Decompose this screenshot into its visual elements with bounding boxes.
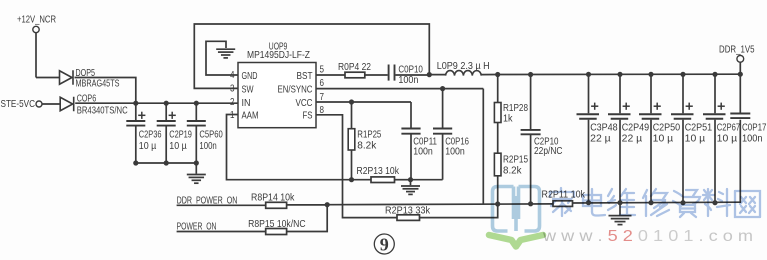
watermark char xiu: [643, 189, 669, 216]
svg-text:C2P49: C2P49: [622, 123, 650, 134]
node R1P28 tap: [495, 72, 500, 77]
node C2P49 top: [617, 72, 622, 77]
op-amp U1 UOP9 MP1495DJ-LF-Z box: [238, 42, 316, 128]
watermark char zi: [673, 190, 700, 217]
wire STE-5VC to COP6: [42, 103, 60, 105]
node C0P16 top: [440, 86, 445, 91]
svg-text:10 µ: 10 µ: [685, 134, 706, 145]
svg-text:22p/NC: 22p/NC: [534, 146, 563, 157]
node C2P36 top: [133, 101, 138, 106]
svg-text:R2P13 33k: R2P13 33k: [385, 205, 431, 216]
resistor R2P15 8.2k: [494, 153, 528, 204]
svg-text:C3P48: C3P48: [590, 123, 618, 134]
wire SW top loop: [194, 24, 429, 88]
ground IC GND: [216, 49, 235, 58]
svg-text:BR4340TS/NC: BR4340TS/NC: [77, 106, 128, 117]
svg-text:EN/SYNC: EN/SYNC: [278, 84, 313, 95]
svg-text:AAM: AAM: [242, 111, 259, 122]
svg-text:MBRAG45TS: MBRAG45TS: [76, 79, 120, 90]
wire fb node to C0P16 bottom: [411, 179, 443, 181]
node C3P48 top: [586, 72, 591, 77]
svg-text:5: 5: [320, 65, 325, 76]
net label POWER_ON: [177, 221, 266, 232]
ground fb: [401, 180, 420, 195]
terminal DDR_1V5: [719, 45, 755, 74]
svg-text:100n: 100n: [742, 134, 763, 145]
svg-text:w w w . 5 2 0 1 0 1 . c o m: w w w . 5 2 0 1 0 1 . c o m: [542, 228, 753, 245]
node C2P51 bottom: [680, 200, 685, 205]
svg-text:100n: 100n: [199, 141, 217, 152]
wire pin7 VCC: [316, 102, 411, 128]
wire input caps ground bus: [136, 162, 197, 164]
wire pin6 EN/SYNC: [316, 89, 483, 204]
diode DOP5 MBRAG45TS: [60, 68, 120, 90]
watermark char liao: [703, 189, 730, 216]
node R1P25 top: [349, 99, 354, 104]
svg-text:L0P9 2.3 µ H: L0P9 2.3 µ H: [437, 61, 490, 72]
resistor R1P28 1k: [494, 75, 528, 154]
wire bottom rail left: [327, 203, 553, 206]
capacitor C0P16 100n: [433, 89, 469, 180]
svg-text:VCC: VCC: [296, 98, 313, 109]
wire R8P14 to junction: [287, 204, 328, 206]
wire output rail DDR_1V5: [498, 73, 741, 75]
svg-text:100n: 100n: [445, 147, 465, 158]
capacitor C2P10 22p/NC: [521, 75, 563, 204]
svg-text:8.2k: 8.2k: [357, 140, 377, 151]
node C2P49 bottom: [617, 200, 622, 205]
svg-text:100n: 100n: [413, 147, 433, 158]
inductor L0P9 2.3uH: [429, 61, 497, 76]
svg-text:9: 9: [380, 234, 389, 254]
svg-text:GND: GND: [242, 71, 258, 82]
svg-text:R1P25: R1P25: [357, 129, 381, 140]
terminal +12V_NCR: [17, 15, 56, 78]
pin 2 IN label: [230, 97, 251, 109]
svg-text:R2P15: R2P15: [503, 155, 528, 166]
node C2P50 top: [648, 72, 653, 77]
svg-text:DDR_1V5: DDR_1V5: [719, 45, 755, 56]
node C2P10 tap: [528, 72, 533, 77]
node C2P50 bottom: [648, 200, 653, 205]
svg-text:FS: FS: [303, 111, 313, 122]
watermark char jia: [550, 188, 574, 216]
svg-text:R8P14 10k: R8P14 10k: [251, 193, 295, 204]
wire +12V to DOP5: [36, 77, 60, 79]
svg-text:STE-5VC: STE-5VC: [1, 99, 36, 110]
watermark char wei: [608, 189, 635, 215]
node C2P51 top: [680, 72, 685, 77]
capacitor C3P48 22 u: [577, 74, 618, 203]
svg-text:C2P67: C2P67: [717, 123, 741, 134]
svg-text:10 µ: 10 µ: [653, 134, 674, 145]
pin 3 SW label: [230, 84, 254, 96]
wire pin8 FS: [316, 115, 397, 218]
svg-text:C2P36: C2P36: [139, 130, 162, 141]
capacitor C2P50 10 u: [639, 74, 680, 203]
wire R2P13 to ground node: [395, 179, 411, 181]
capacitor C2P19 10u: [157, 103, 192, 163]
svg-text:IN: IN: [242, 98, 251, 109]
svg-text:8.2k: 8.2k: [503, 165, 522, 176]
watermark url www.520101.com: [542, 228, 753, 245]
resistor R2P13 10k: [357, 166, 400, 183]
pin 4 GND label: [230, 70, 258, 82]
svg-text:10 µ: 10 µ: [717, 134, 738, 145]
resistor R2P11 10k: [542, 190, 586, 207]
pin 6 EN/SYNC label: [278, 78, 325, 95]
capacitor C0P17 100n: [730, 74, 766, 203]
ground output rail: [609, 203, 632, 225]
pin 7 VCC label: [296, 92, 325, 109]
svg-text:C0P10: C0P10: [398, 64, 423, 75]
svg-text:2: 2: [230, 97, 235, 108]
node C5P60 top: [194, 101, 199, 106]
wire C0P10 to SW node: [395, 74, 429, 76]
node R2P15 bottom: [495, 201, 500, 206]
svg-text:10 µ: 10 µ: [169, 141, 187, 152]
node C2P67 top: [712, 72, 717, 77]
terminal STE-5VC: [1, 99, 43, 110]
capacitor C2P36 10u: [126, 103, 161, 163]
pin 5 BST label: [297, 65, 325, 82]
svg-text:1k: 1k: [503, 113, 513, 124]
resistor R2P13 33k: [385, 205, 431, 220]
svg-text:C2P50: C2P50: [653, 123, 681, 134]
svg-text:C2P51: C2P51: [685, 123, 713, 134]
svg-text:6: 6: [320, 78, 325, 89]
node C2P10 bottom: [528, 201, 533, 206]
svg-text:R0P4 22: R0P4 22: [338, 62, 371, 73]
diode COP6 BR4340TS/NC: [60, 94, 128, 117]
svg-text:SW: SW: [242, 84, 254, 95]
node SW switch node: [427, 72, 432, 77]
wire pin4 GND hook: [206, 41, 238, 75]
resistor R8P14 10k: [251, 193, 295, 209]
resistor R1P25 8.2k: [348, 102, 381, 180]
svg-text:C5P60: C5P60: [199, 130, 223, 141]
svg-text:C2P19: C2P19: [169, 130, 192, 141]
capacitor C2P51 10 u: [671, 74, 712, 203]
capacitor C2P67 10 u: [703, 74, 740, 203]
ground input bus: [187, 163, 206, 183]
capacitor C0P10 100n: [389, 64, 424, 86]
svg-text:100n: 100n: [398, 75, 418, 86]
svg-text:+12V_NCR: +12V_NCR: [17, 15, 56, 26]
pin 8 FS label: [303, 105, 325, 122]
resistor R0P4 22: [338, 62, 371, 78]
pin 1 AAM label: [230, 110, 259, 122]
svg-text:22 µ: 22 µ: [590, 134, 611, 145]
node C2P67 bottom: [712, 200, 717, 205]
node C3P48 bottom: [586, 200, 591, 205]
wire R8P15 up to junction: [287, 205, 328, 232]
svg-text:MP1495DJ-LF-Z: MP1495DJ-LF-Z: [247, 50, 310, 61]
resistor R8P15 10k/NC: [248, 219, 306, 235]
svg-text:R8P15 10k/NC: R8P15 10k/NC: [248, 219, 306, 230]
node C2P19 bottom: [164, 160, 169, 165]
node DDR_1V5 tap: [738, 72, 743, 77]
svg-text:C0P17: C0P17: [742, 123, 767, 134]
node R1P25 bottom: [349, 177, 354, 182]
svg-text:BST: BST: [297, 71, 314, 82]
wire DOP5 cathode to IN rail: [75, 78, 136, 104]
svg-text:22 µ: 22 µ: [622, 134, 643, 145]
wire bottom rail right: [573, 201, 741, 204]
svg-text:10 µ: 10 µ: [139, 141, 157, 152]
watermark char dian: [583, 189, 605, 216]
node C2P19 top: [164, 101, 169, 106]
page number 9 circled: [374, 234, 394, 254]
watermark book icon: [489, 187, 543, 247]
node input ground: [194, 160, 199, 165]
capacitor C5P60 100n: [187, 103, 223, 163]
wire AAM to R1P25 node: [227, 115, 352, 180]
wire R2P13 33k to rail: [420, 204, 498, 218]
watermark char wang: [735, 191, 760, 217]
node fb ground: [408, 177, 413, 182]
wire R0P4 to C0P10: [365, 74, 388, 76]
node power-on junction: [325, 202, 330, 207]
wire to R2P13 10k: [352, 179, 372, 181]
wire pin5 BST: [316, 74, 345, 76]
net label DDR_POWER_ON: [177, 195, 266, 206]
node C2P36 bottom: [133, 160, 138, 165]
svg-text:R2P13 10k: R2P13 10k: [357, 166, 400, 177]
capacitor C2P49 22 u: [608, 74, 649, 203]
capacitor C0P11 100n: [401, 129, 437, 180]
svg-text:R1P28: R1P28: [503, 103, 528, 114]
wire IN rail 5V: [75, 102, 238, 104]
